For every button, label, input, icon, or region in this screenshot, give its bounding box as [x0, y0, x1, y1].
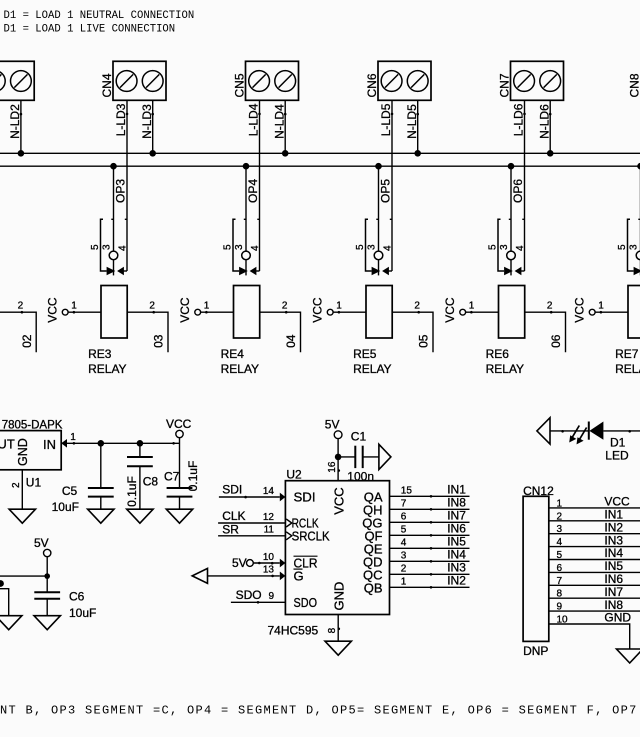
svg-text:IN7: IN7: [447, 508, 466, 522]
wire VCC to RE4 pin 1: [201, 311, 234, 314]
opto designator OP3: [114, 179, 128, 203]
svg-text:N-LD3: N-LD3: [140, 104, 154, 139]
C5 value 10uF: [52, 500, 79, 514]
svg-text:5: 5: [223, 244, 234, 250]
power VCC (C7): [166, 417, 192, 438]
ground symbol C6: [34, 616, 60, 630]
wire VCC to RE5 pin 1: [333, 311, 366, 314]
svg-text:3: 3: [629, 244, 640, 250]
svg-text:C7: C7: [164, 469, 180, 483]
svg-text:1: 1: [71, 301, 77, 312]
voltage regulator U1 7805-DAPK (box partially off-sheet): [0, 431, 61, 470]
screw terminal connector CN5: [246, 61, 299, 100]
svg-text:D1 = LOAD 1 LIVE CONNECTION: D1 = LOAD 1 LIVE CONNECTION: [4, 24, 176, 36]
svg-text:IN3: IN3: [604, 533, 623, 547]
relay value RELAY: [486, 362, 524, 376]
junction C5: [98, 440, 105, 447]
optocoupler OP3 (triac output side, pins 5/3/4): [101, 219, 128, 275]
pin number 2 (RE2): [18, 301, 24, 312]
net label L-LD5: [379, 103, 393, 136]
U2 value 74HC595: [268, 624, 319, 638]
svg-text:4: 4: [515, 245, 526, 251]
svg-text:3: 3: [367, 244, 378, 250]
pin number 8: [327, 627, 338, 633]
wire SDI: [219, 496, 280, 499]
wire neutral bus: [0, 152, 640, 154]
svg-text:IN1: IN1: [604, 508, 623, 522]
pin number 1 (RE4): [204, 301, 210, 312]
svg-text:0.1uF: 0.1uF: [186, 461, 200, 492]
svg-text:2: 2: [414, 301, 420, 312]
svg-text:L-LD4: L-LD4: [246, 103, 260, 136]
opto pin number 3: [234, 244, 245, 250]
svg-text:IN4: IN4: [604, 546, 623, 560]
net label L-LD6: [511, 103, 525, 136]
svg-text:OP4: OP4: [246, 179, 260, 203]
power 5V (U2 pin 16): [325, 417, 342, 438]
wire 5V rail: [0, 557, 47, 593]
wire 5V to CLR: [253, 562, 279, 565]
U2 pin 1 QB to net IN2: [364, 573, 470, 595]
svg-text:RE7: RE7: [615, 347, 639, 361]
svg-text:DNP: DNP: [523, 644, 548, 658]
svg-text:16: 16: [327, 461, 338, 473]
svg-text:RELAY: RELAY: [221, 362, 259, 376]
opto designator OP5: [379, 179, 393, 203]
wire CLK: [218, 522, 285, 524]
svg-text:3: 3: [401, 550, 407, 561]
opto designator OP4: [246, 179, 260, 203]
C1 value 100n: [347, 469, 374, 483]
svg-text:IN2: IN2: [447, 573, 466, 587]
svg-text:3: 3: [234, 244, 245, 250]
svg-text:VCC: VCC: [573, 297, 587, 323]
svg-text:IN7: IN7: [604, 585, 623, 599]
svg-text:N-LD2: N-LD2: [8, 104, 22, 139]
screw terminal connector CN7: [511, 61, 564, 100]
CN12 pin 9 net IN8: [549, 598, 640, 613]
off-sheet arrow (LED drive): [537, 418, 550, 444]
svg-text:15: 15: [401, 485, 413, 496]
U2 designator: [286, 468, 302, 482]
net label SR: [222, 522, 239, 536]
wire U1 IN to VCC: [67, 442, 180, 445]
relay RE6 coil box: [499, 286, 525, 339]
pin number 1 (RE3): [71, 301, 77, 312]
screw terminal connector CN3: [0, 61, 34, 100]
svg-text:IN6: IN6: [604, 572, 623, 586]
wire L-LD3 live lead to opto pin 4: [126, 100, 129, 271]
pin number 1 (RE6): [469, 301, 475, 312]
svg-text:RE3: RE3: [88, 347, 112, 361]
svg-text:RE4: RE4: [221, 347, 245, 361]
C5 designator: [62, 484, 78, 498]
svg-text:5: 5: [401, 524, 407, 535]
capacitor C5 10uF: [88, 443, 114, 509]
net label 03: [152, 334, 166, 348]
svg-text:RELAY: RELAY: [88, 362, 126, 376]
note: segment mapping: [0, 704, 638, 718]
C7 designator: [164, 469, 180, 483]
svg-text:5: 5: [90, 244, 101, 250]
svg-text:9: 9: [268, 591, 274, 602]
svg-text:L-LD6: L-LD6: [511, 103, 525, 136]
svg-text:RE5: RE5: [353, 347, 377, 361]
relay value RELAY: [615, 362, 640, 376]
wire N-LD6 neutral lead to bus: [549, 100, 552, 153]
svg-text:LED: LED: [605, 448, 629, 462]
D1 value LED: [605, 448, 629, 462]
svg-text:11: 11: [264, 525, 275, 536]
svg-text:SR: SR: [222, 522, 239, 536]
wire G enable: [208, 575, 280, 578]
svg-text:04: 04: [284, 334, 298, 348]
svg-text:06: 06: [549, 334, 563, 348]
CN12 pin 7 net IN6: [549, 572, 640, 587]
svg-text:0.1uF: 0.1uF: [125, 476, 139, 507]
U2 pin 2 QC to net IN3: [363, 560, 470, 582]
wire VCC to RE7 pin 1: [595, 311, 628, 314]
svg-text:4: 4: [250, 245, 261, 251]
relay value RELAY: [221, 362, 259, 376]
optocoupler OP4 (triac output side, pins 5/3/4): [233, 219, 260, 275]
wire N-LD3 neutral lead to bus: [151, 100, 154, 153]
svg-text:03: 03: [152, 334, 166, 348]
svg-text:CN5: CN5: [233, 73, 247, 97]
U2 pin 4 QE to net IN5: [364, 534, 470, 556]
pin number 1 (RE7): [598, 301, 604, 312]
svg-text:2: 2: [11, 482, 22, 488]
wire L-LD4 live lead to opto pin 4: [258, 100, 261, 271]
svg-text:IN3: IN3: [447, 560, 466, 574]
U2 pin 10 CLR: [263, 552, 318, 571]
pin number 2 (RE3): [149, 301, 155, 312]
wire live bus: [0, 165, 640, 167]
svg-text:3: 3: [557, 524, 563, 535]
svg-text:N-LD5: N-LD5: [405, 104, 419, 139]
svg-text:VCC: VCC: [331, 487, 346, 514]
opto pin number 5: [355, 244, 366, 250]
svg-text:L-LD5: L-LD5: [379, 103, 393, 136]
pin name VCC (U2, rotated): [331, 487, 346, 514]
svg-text:12: 12: [263, 512, 275, 523]
relay designator RE3: [88, 347, 112, 361]
CN12 pin 2 net IN1: [549, 508, 640, 523]
svg-text:G: G: [294, 569, 304, 584]
svg-text:7: 7: [401, 498, 407, 509]
U2 pin 13 G: [263, 565, 304, 584]
ground symbol CN12: [617, 649, 640, 663]
wire RE6 pin 2 to net 06: [525, 311, 566, 352]
svg-text:VCC: VCC: [604, 495, 630, 509]
connector designator CN6: [365, 73, 379, 97]
svg-text:5V: 5V: [232, 556, 247, 570]
regulator value 7805-DAPK: [2, 420, 63, 432]
pin header connector CN12: [523, 496, 549, 641]
junction N-LD6 on neutral bus: [547, 150, 554, 157]
svg-text:3: 3: [499, 244, 510, 250]
svg-text:SDO: SDO: [236, 588, 262, 602]
opto pin number 5: [223, 244, 234, 250]
C8 designator: [143, 475, 159, 489]
svg-text:8: 8: [557, 589, 563, 600]
relay value RELAY: [353, 362, 391, 376]
net label CLK: [222, 509, 245, 523]
svg-text:1: 1: [469, 301, 475, 312]
svg-text:OP5: OP5: [379, 179, 393, 203]
svg-text:10: 10: [557, 615, 569, 626]
svg-text:13: 13: [263, 565, 275, 576]
svg-text:D1: D1: [610, 435, 626, 449]
svg-text:1: 1: [598, 301, 604, 312]
wire live bus to OP6 pin 3: [510, 166, 512, 251]
capacitor C8 0.1uF: [127, 443, 153, 509]
opto pin number 5: [617, 244, 628, 250]
relay designator RE4: [221, 347, 245, 361]
svg-text:8: 8: [327, 627, 338, 633]
note: load 1 neutral connection: [4, 10, 195, 22]
pin number 1 (U1): [70, 432, 76, 443]
svg-text:2: 2: [547, 301, 553, 312]
svg-text:RELAY: RELAY: [353, 362, 391, 376]
C6 designator: [69, 589, 85, 603]
C6 value 10uF: [69, 606, 96, 620]
power 5V (CLR pin 10): [232, 556, 253, 570]
junction N-LD5 on neutral bus: [414, 150, 421, 157]
svg-text:VCC: VCC: [443, 297, 457, 323]
screw terminal connector CN6: [378, 61, 431, 100]
junction 5V rail: [44, 573, 50, 579]
net label L-LD3: [114, 103, 128, 136]
svg-text:RE6: RE6: [486, 347, 510, 361]
ground symbol (left edge): [0, 616, 22, 630]
wire N-LD5 neutral lead to bus: [416, 100, 419, 153]
wire live bus to OP3 pin 3: [113, 166, 115, 251]
svg-text:5: 5: [557, 550, 563, 561]
U2 pin 7 QH to net IN8: [363, 495, 470, 517]
U1 designator U1: [26, 475, 42, 489]
svg-text:GND: GND: [604, 611, 631, 625]
U2 pin 3 QD to net IN4: [363, 547, 470, 569]
junction OP5 pin 3 on live bus: [375, 163, 382, 170]
capacitor C6 10uF: [34, 592, 60, 616]
pin number 16: [327, 461, 338, 473]
svg-text:4: 4: [401, 537, 407, 548]
wire to LED D1: [550, 430, 589, 433]
D1 designator: [610, 435, 626, 449]
U1 pin 1 input arrow: [61, 439, 67, 448]
junction OP6 pin 3 on live bus: [508, 163, 515, 170]
net label SDO: [236, 588, 262, 602]
ground symbol C5: [88, 509, 114, 523]
wire off-sheet component to ground: [0, 589, 9, 616]
note: load 1 live connection: [4, 24, 176, 36]
capacitor C1 100n: [338, 446, 379, 468]
pin number 2 (RE5): [414, 301, 420, 312]
CN12 pin 6 net IN5: [549, 559, 640, 574]
svg-text:IN8: IN8: [447, 495, 466, 509]
svg-text:N-LD4: N-LD4: [272, 104, 286, 139]
svg-text:SRCLK: SRCLK: [292, 528, 330, 543]
svg-text:CLK: CLK: [222, 509, 245, 523]
svg-text:2: 2: [401, 563, 407, 574]
power VCC for RE7 coil: [573, 297, 596, 323]
svg-text:2: 2: [149, 301, 155, 312]
relay RE3 coil box: [101, 286, 127, 339]
junction OP3 pin 3 on live bus: [110, 163, 117, 170]
wire SR: [218, 535, 285, 537]
svg-text:CN8: CN8: [628, 73, 640, 97]
opto pin number 3: [499, 244, 510, 250]
wire L-LD6 live lead to opto pin 4: [523, 100, 526, 271]
power 5V (C6): [34, 536, 51, 557]
net label SDI: [222, 483, 242, 497]
svg-text:10uF: 10uF: [69, 606, 96, 620]
net label 05: [417, 334, 431, 348]
wire SDO: [231, 601, 286, 604]
wire live bus to OP4 pin 3: [245, 166, 247, 251]
connector designator CN7: [498, 73, 512, 97]
wire VCC to RE3 pin 1: [68, 311, 101, 314]
optocoupler OP7 (triac output side, pins 5/3/4): [628, 219, 640, 275]
svg-text:C8: C8: [143, 475, 159, 489]
connector designator CN5: [233, 73, 247, 97]
svg-text:C1: C1: [351, 429, 367, 443]
svg-text:L-LD3: L-LD3: [114, 103, 128, 136]
svg-text:OP3: OP3: [114, 179, 128, 203]
relay value RELAY: [88, 362, 126, 376]
connector designator CN12: [523, 484, 554, 498]
pin number 2 (RE4): [282, 301, 288, 312]
opto pin number 3: [629, 244, 640, 250]
relay designator RE6: [486, 347, 510, 361]
svg-text:9: 9: [557, 602, 563, 613]
svg-text:10uF: 10uF: [52, 500, 79, 514]
svg-text:02: 02: [20, 334, 34, 348]
svg-text:1: 1: [557, 498, 563, 509]
IC U2 74HC595 body: [285, 481, 389, 615]
net label 04: [284, 334, 298, 348]
off-sheet arrow (C1 ground): [379, 444, 391, 469]
wire LED to edge + LED symbol: [569, 422, 640, 445]
capacitor C7 0.1uF: [167, 438, 193, 510]
wire RE3 pin 2 to net 03: [127, 311, 168, 352]
svg-text:4: 4: [557, 537, 563, 548]
U2 pin 15 QA to net IN1: [364, 482, 470, 504]
svg-text:VCC: VCC: [311, 297, 325, 323]
C7 value 0.1uF: [186, 461, 200, 492]
optocoupler OP5 (triac output side, pins 5/3/4): [366, 219, 393, 275]
svg-text:6: 6: [401, 511, 407, 522]
opto pin number 4: [250, 245, 261, 251]
opto pin number 5: [90, 244, 101, 250]
svg-text:2: 2: [282, 301, 288, 312]
pin name GND (U2, rotated): [331, 582, 346, 611]
svg-text:D1 = LOAD 1 NEUTRAL CONNECTION: D1 = LOAD 1 NEUTRAL CONNECTION: [4, 10, 195, 22]
svg-text:05: 05: [417, 334, 431, 348]
svg-text:CN6: CN6: [365, 73, 379, 97]
svg-text:1: 1: [401, 576, 407, 587]
svg-text:OP6: OP6: [511, 179, 525, 203]
svg-text:QB: QB: [364, 580, 383, 595]
wire N-LD4 neutral lead to bus: [284, 100, 287, 153]
pin name OUT (clipped): [0, 436, 15, 451]
ground symbol U2: [325, 641, 351, 655]
wire VCC to RE6 pin 1: [466, 311, 499, 314]
svg-text:74HC595: 74HC595: [268, 624, 319, 638]
ground symbol U1: [9, 509, 35, 523]
svg-text:4: 4: [382, 245, 393, 251]
svg-text:RELAY: RELAY: [615, 362, 640, 376]
junction at sheet edge: [0, 580, 4, 587]
svg-text:VCC: VCC: [178, 297, 192, 323]
svg-text:IN: IN: [43, 437, 56, 452]
pin name IN (U1): [43, 437, 56, 452]
wire RE4 pin 2 to net 04: [260, 311, 301, 352]
svg-text:1: 1: [336, 301, 342, 312]
svg-text:5V: 5V: [325, 417, 340, 431]
wire live bus to OP5 pin 3: [378, 166, 380, 251]
ground symbol C7: [166, 509, 192, 523]
svg-text:C5: C5: [62, 484, 78, 498]
net label L-LD4: [246, 103, 260, 136]
relay RE7 coil box: [628, 286, 640, 339]
svg-text:2: 2: [557, 511, 563, 522]
svg-text:5V: 5V: [34, 536, 49, 550]
ground symbol C8: [127, 509, 153, 523]
off-sheet arrow (G enable): [192, 568, 207, 583]
opto pin number 4: [382, 245, 393, 251]
net label N-LD5: [405, 104, 419, 139]
U2 pin 5 QF to net IN6: [364, 521, 469, 543]
net label N-LD3: [140, 104, 154, 139]
svg-text:SDO: SDO: [294, 595, 318, 610]
svg-text:IN4: IN4: [447, 547, 466, 561]
connector designator CN4: [100, 73, 114, 97]
net label 06: [549, 334, 563, 348]
U2 pin 12 RCLK: [263, 512, 319, 531]
svg-text:1: 1: [70, 432, 76, 443]
svg-text:IN2: IN2: [604, 520, 623, 534]
connector designator CN8: [628, 73, 640, 97]
CN12 pin 1 net VCC: [549, 495, 640, 510]
junction OP4 pin 3 on live bus: [243, 163, 250, 170]
wire RE2 pin 2 to net 02: [0, 311, 36, 352]
svg-text:5: 5: [355, 244, 366, 250]
svg-text:N-LD6: N-LD6: [537, 104, 551, 139]
svg-text:GND: GND: [331, 582, 346, 611]
CN12 pin 3 net IN2: [549, 520, 640, 535]
svg-text:SDI: SDI: [222, 483, 242, 497]
wire U1 GND pin 2: [21, 470, 23, 509]
opto pin number 4: [515, 245, 526, 251]
relay RE4 coil box: [234, 286, 260, 339]
relay designator RE5: [353, 347, 377, 361]
svg-text:C6: C6: [69, 589, 85, 603]
svg-text:GND: GND: [16, 438, 30, 466]
relay designator RE7: [615, 347, 639, 361]
net label N-LD4: [272, 104, 286, 139]
svg-text:RELAY: RELAY: [486, 362, 524, 376]
U2 pin 14 SDI: [263, 486, 316, 505]
C8 value 0.1uF: [125, 476, 139, 507]
svg-text:5: 5: [617, 244, 628, 250]
svg-text:2: 2: [18, 301, 24, 312]
svg-text:U1: U1: [26, 475, 42, 489]
pin name GND (U1): [16, 438, 30, 466]
wire L-LD5 live lead to opto pin 4: [391, 100, 394, 271]
svg-text:IN1: IN1: [447, 482, 466, 496]
